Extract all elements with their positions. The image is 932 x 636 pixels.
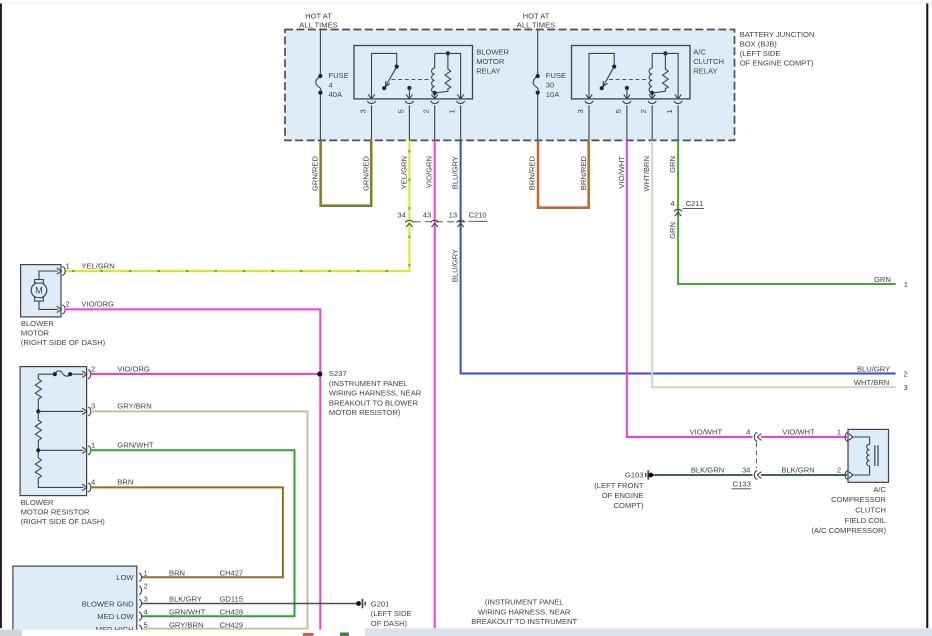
svg-text:G103: G103	[625, 471, 644, 480]
svg-text:CLUTCH: CLUTCH	[693, 57, 724, 66]
svg-text:VIO/WHT: VIO/WHT	[617, 156, 626, 189]
svg-text:GRY/BRN: GRY/BRN	[117, 402, 151, 411]
connector C210 pin 13	[457, 220, 465, 222]
svg-text:4: 4	[670, 199, 674, 208]
svg-text:(RIGHT SIDE OF DASH): (RIGHT SIDE OF DASH)	[21, 517, 106, 526]
A/C clutch coil core bars	[875, 445, 878, 466]
svg-text:BRN/RED: BRN/RED	[579, 155, 588, 190]
wire GRN/RED U-link fuse4 to relay K1 pin 3	[320, 140, 371, 206]
wire VIO/ORG motor pin2 to splice S237	[65, 309, 320, 629]
svg-text:MOTOR: MOTOR	[21, 328, 50, 337]
svg-text:MOTOR RESISTOR: MOTOR RESISTOR	[21, 507, 90, 516]
svg-text:WHT/BRN: WHT/BRN	[642, 156, 651, 191]
A/C clutch coil pin 2	[845, 471, 848, 480]
svg-text:3: 3	[91, 402, 95, 411]
svg-text:VIO/ORG: VIO/ORG	[117, 364, 150, 373]
svg-text:BLOWER: BLOWER	[476, 48, 509, 57]
blower motor resistor R1 box	[20, 367, 87, 496]
blower switch pin 3	[139, 599, 142, 607]
svg-text:CH429: CH429	[220, 620, 244, 629]
svg-text:HOT AT: HOT AT	[305, 11, 332, 20]
wire VIO/WHT C133 to A/C clutch coil pin 1	[761, 436, 847, 438]
A/C clutch coil pin 1	[845, 433, 848, 442]
connector C210 pin 34	[405, 220, 413, 222]
resistor R1 tap to pin 1	[38, 449, 83, 451]
svg-text:4: 4	[91, 478, 95, 487]
relay K2 actuation dashed link	[609, 79, 649, 81]
relay K1 actuation dashed link	[392, 79, 432, 81]
svg-text:1: 1	[665, 109, 674, 113]
relay K2 pin cups and numbers	[585, 101, 593, 104]
svg-text:30: 30	[546, 81, 554, 90]
svg-text:13: 13	[449, 210, 457, 219]
svg-text:RELAY: RELAY	[476, 67, 500, 76]
relay K2 pin 1 leg	[652, 53, 678, 99]
fuse 30 10A	[533, 76, 538, 93]
svg-text:1: 1	[144, 568, 148, 577]
resistor R1 pin 4	[82, 484, 87, 490]
svg-text:(LEFT SIDE: (LEFT SIDE	[371, 609, 412, 618]
connector C210 pin 43	[431, 220, 439, 222]
svg-text:10A: 10A	[546, 90, 560, 99]
resistor R1 pin 1	[82, 447, 87, 453]
relay K2 coil	[649, 53, 652, 99]
svg-text:1: 1	[91, 441, 95, 450]
blower switch box (bottom)	[13, 566, 137, 634]
svg-text:40A: 40A	[329, 90, 343, 99]
svg-text:FUSE: FUSE	[329, 71, 349, 80]
svg-text:BLU/GRY: BLU/GRY	[857, 364, 890, 373]
resistor R1 thermal limiter	[38, 373, 83, 375]
wire WHT/BRN relay K2 pin2 to right edge	[652, 140, 896, 387]
svg-text:2: 2	[422, 109, 431, 113]
svg-text:5: 5	[396, 109, 405, 113]
svg-text:BLU/GRY: BLU/GRY	[451, 156, 460, 189]
svg-text:3: 3	[359, 109, 368, 113]
blower motor M1 symbol	[39, 271, 58, 309]
svg-text:GRN: GRN	[668, 222, 677, 239]
svg-text:BLU/GRY: BLU/GRY	[451, 249, 460, 282]
svg-text:MED LOW: MED LOW	[97, 612, 134, 621]
svg-text:GRN/WHT: GRN/WHT	[169, 607, 206, 616]
svg-text:GRN: GRN	[668, 156, 677, 173]
blower switch pin 5	[139, 625, 142, 633]
svg-text:GRN/RED: GRN/RED	[310, 155, 319, 191]
wire VIO/WHT relay K2 pin5 to C133	[627, 140, 753, 437]
svg-text:GRN/RED: GRN/RED	[362, 155, 371, 191]
svg-text:A/C: A/C	[693, 48, 706, 57]
svg-text:RELAY: RELAY	[693, 67, 717, 76]
svg-text:(RIGHT SIDE OF DASH): (RIGHT SIDE OF DASH)	[21, 338, 106, 347]
relay K2 pin 5 stub	[625, 86, 629, 90]
wire BLK/GRY blower switch pin3 to ground G201	[142, 603, 356, 605]
svg-text:5: 5	[144, 620, 148, 629]
relay K1 pin 5 stub	[407, 86, 411, 90]
svg-text:2: 2	[91, 364, 95, 373]
svg-text:BRN/RED: BRN/RED	[528, 155, 537, 190]
svg-text:M: M	[35, 286, 43, 296]
svg-text:CH428: CH428	[220, 607, 244, 616]
svg-text:YEL/GRN: YEL/GRN	[81, 261, 114, 270]
wire feed into fuse 30	[537, 29, 539, 141]
svg-text:C133: C133	[733, 479, 751, 488]
svg-text:BRN: BRN	[169, 568, 185, 577]
svg-text:4: 4	[746, 428, 750, 437]
svg-text:(A/C COMPRESSOR): (A/C COMPRESSOR)	[811, 526, 886, 535]
svg-text:1: 1	[904, 280, 908, 289]
relay K1 blower motor relay box	[354, 46, 473, 99]
wire GRY/BRN resistor pin3 to blower switch pin 5	[91, 411, 308, 628]
svg-text:BRN: BRN	[117, 478, 133, 487]
svg-text:BLK/GRY: BLK/GRY	[169, 595, 202, 604]
svg-text:FIELD COIL: FIELD COIL	[845, 516, 886, 525]
battery junction box (BJB) dashed enclosure	[285, 30, 735, 141]
svg-text:HOT AT: HOT AT	[523, 11, 550, 20]
svg-text:BLOWER GND: BLOWER GND	[82, 599, 134, 608]
svg-text:BLK/GRN: BLK/GRN	[691, 466, 724, 475]
svg-text:34: 34	[397, 210, 405, 219]
blower motor M1 box	[21, 265, 61, 317]
svg-text:2: 2	[904, 370, 908, 379]
wire BLK/GRN C133 to A/C clutch coil pin 2	[761, 474, 847, 476]
svg-text:(LEFT SIDE: (LEFT SIDE	[740, 49, 781, 58]
svg-text:BLOWER: BLOWER	[21, 319, 54, 328]
relay K1 pin cups and numbers	[368, 101, 376, 104]
connector C211 pin 4	[674, 209, 682, 211]
svg-text:COMPT): COMPT)	[614, 501, 644, 510]
wire GRN/WHT resistor pin1 to blower switch pin 4	[91, 450, 295, 616]
resistor R1 tap to pin 3	[38, 410, 83, 412]
svg-text:VIO/WHT: VIO/WHT	[782, 428, 815, 437]
svg-text:5: 5	[614, 109, 623, 113]
svg-text:ALL TIMES: ALL TIMES	[299, 21, 337, 30]
svg-text:3: 3	[144, 595, 148, 604]
wire VIO/GRN relay K1 pin2 down to instrument panel	[434, 140, 436, 629]
svg-text:YEL/GRN: YEL/GRN	[399, 156, 408, 189]
wire BRN resistor pin4 to blower switch pin 1	[91, 487, 283, 577]
connector C210 label and link line	[414, 221, 469, 223]
svg-text:G201: G201	[371, 599, 390, 608]
svg-text:WHT/BRN: WHT/BRN	[854, 378, 889, 387]
A/C compressor clutch field coil L1 box	[848, 429, 889, 482]
svg-text:2: 2	[144, 581, 148, 590]
svg-text:1: 1	[837, 428, 841, 437]
svg-text:BLK/GRN: BLK/GRN	[781, 466, 814, 475]
resistor R1 pin 3	[82, 408, 87, 414]
svg-text:VIO/ORG: VIO/ORG	[81, 300, 114, 309]
svg-text:BATTERY JUNCTION: BATTERY JUNCTION	[740, 30, 815, 39]
relay K2 pin wires to BJB edge	[589, 105, 678, 140]
svg-text:MOTOR: MOTOR	[476, 57, 505, 66]
resistor R1 element chain	[35, 374, 41, 411]
svg-text:43: 43	[423, 210, 431, 219]
blower switch pin 1	[139, 573, 142, 581]
svg-text:2: 2	[639, 109, 648, 113]
svg-text:(INSTRUMENT PANEL: (INSTRUMENT PANEL	[485, 598, 564, 607]
A/C clutch coil winding	[854, 437, 870, 475]
svg-text:OF ENGINE COMPT): OF ENGINE COMPT)	[740, 59, 814, 68]
connector C133 dashed link and label	[755, 443, 757, 469]
wire BLU/GRY relay K1 pin1 to right edge	[461, 140, 896, 373]
svg-text:(LEFT FRONT: (LEFT FRONT	[594, 481, 644, 490]
svg-text:2: 2	[837, 466, 841, 475]
wire feed into fuse 4	[319, 29, 321, 141]
svg-text:C210: C210	[469, 210, 487, 219]
svg-text:34: 34	[742, 466, 750, 475]
blower switch pin 2	[139, 586, 142, 594]
svg-text:OF DASH): OF DASH)	[371, 619, 408, 628]
frame left border	[0, 2, 932, 5]
svg-text:(INSTRUMENT PANEL: (INSTRUMENT PANEL	[329, 379, 408, 388]
svg-text:MOTOR RESISTOR): MOTOR RESISTOR)	[329, 408, 401, 417]
svg-text:S237: S237	[329, 369, 347, 378]
relay K1 pin 1 leg	[435, 53, 461, 99]
svg-text:WIRING HARNESS, NEAR: WIRING HARNESS, NEAR	[329, 389, 422, 398]
svg-text:CH427: CH427	[220, 568, 244, 577]
svg-text:FUSE: FUSE	[546, 71, 566, 80]
wire BLK/GRN ground G103 to C133	[653, 474, 753, 476]
svg-text:C211: C211	[686, 199, 704, 208]
svg-text:3: 3	[904, 383, 908, 392]
wire YEL/GRN relay K1 pin5 to blower motor pin 1	[65, 140, 409, 271]
relay K2 switch common (pin 3 leg)	[589, 53, 614, 99]
svg-text:GD115: GD115	[220, 595, 244, 604]
wire GRN relay K2 pin1 to right edge	[678, 140, 896, 284]
svg-text:2: 2	[66, 300, 70, 309]
svg-text:4: 4	[144, 607, 148, 616]
blower switch pin 4	[139, 612, 142, 620]
relay K1 coil suppression resistor	[435, 53, 451, 93]
svg-text:BREAKOUT TO INSTRUMENT: BREAKOUT TO INSTRUMENT	[471, 617, 577, 626]
blower motor pin 2	[57, 306, 62, 312]
svg-text:VIO/WHT: VIO/WHT	[690, 428, 723, 437]
svg-text:BLOWER: BLOWER	[21, 498, 54, 507]
ground G201	[356, 601, 361, 606]
svg-text:WIRING HARNESS, NEAR: WIRING HARNESS, NEAR	[478, 607, 571, 616]
relay K1 switch movable contact	[395, 65, 399, 69]
relay K1 switch common (pin 3 leg)	[372, 53, 397, 99]
svg-text:CLUTCH: CLUTCH	[855, 506, 886, 515]
svg-text:1: 1	[448, 109, 457, 113]
svg-text:ALL TIMES: ALL TIMES	[517, 21, 555, 30]
resistor R1 pin 2	[82, 371, 87, 377]
relay K1 coil	[432, 53, 435, 99]
bottom UI strip	[0, 630, 365, 636]
relay K2 switch movable contact	[612, 65, 616, 69]
svg-text:1: 1	[66, 261, 70, 270]
relay K1 pin wires to BJB edge	[372, 105, 461, 140]
svg-text:BREAKOUT TO BLOWER: BREAKOUT TO BLOWER	[329, 398, 419, 407]
connector C133 pin 34	[754, 471, 757, 480]
wire VIO/ORG resistor pin2 to splice S237	[91, 373, 320, 375]
fuse 4 40A	[316, 76, 321, 93]
connector C133 pin 4	[754, 433, 757, 442]
svg-text:LOW: LOW	[116, 573, 134, 582]
svg-text:GRN/WHT: GRN/WHT	[117, 441, 154, 450]
svg-text:A/C: A/C	[873, 485, 886, 494]
svg-text:VIO/GRN: VIO/GRN	[425, 156, 434, 188]
svg-text:GRN: GRN	[874, 275, 891, 284]
svg-text:3: 3	[576, 109, 585, 113]
blower motor pin 1	[57, 268, 62, 274]
svg-text:GRY/BRN: GRY/BRN	[169, 620, 203, 629]
frame right border	[926, 4, 928, 629]
relay K2 A/C clutch relay box	[572, 46, 691, 99]
wire BRN/RED U-link fuse30 to relay K2 pin 3	[538, 140, 589, 208]
splice S237	[317, 371, 322, 376]
svg-text:COMPRESSOR: COMPRESSOR	[831, 495, 886, 504]
relay K2 coil suppression resistor	[652, 53, 668, 93]
svg-text:4: 4	[329, 81, 333, 90]
svg-text:BOX (BJB): BOX (BJB)	[740, 40, 778, 49]
svg-text:OF ENGINE: OF ENGINE	[602, 491, 644, 500]
